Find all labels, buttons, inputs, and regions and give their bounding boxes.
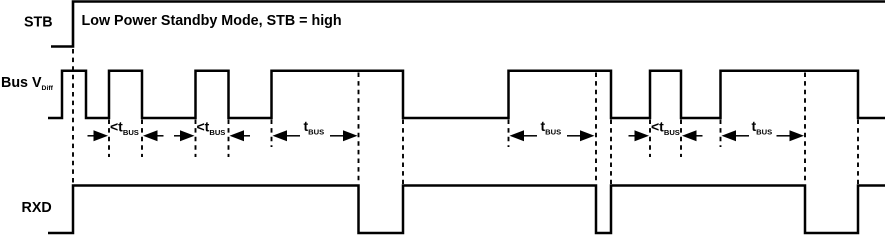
dashed line pulse3 fall x=228.5 <box>228 120 230 158</box>
dashed line bus fall / RXD rise x=858 <box>857 120 859 185</box>
dashed line pulse6 fall x=681 <box>680 120 682 158</box>
annotation f arrows (tBUS long pulse 3) <box>722 130 805 141</box>
dashed line pulse6 rise x=650 <box>649 120 651 158</box>
dashed line long pulse3 rise x=720.5 <box>720 120 722 148</box>
annotation c arrows (tBUS long pulse 1) <box>273 130 358 141</box>
wire Bus VDiff waveform <box>48 71 885 118</box>
svg-text:STB: STB <box>24 15 53 31</box>
dashed line long pulse2 rise x=508.5 <box>508 120 510 148</box>
dashed line pulse3 rise x=195.5 <box>195 120 197 158</box>
dashed line bus fall / RXD rise x=611 <box>610 120 612 185</box>
dashed line RXD fall x=805 <box>804 73 806 185</box>
annotation d arrows (tBUS long pulse 2) <box>510 130 595 141</box>
annotation a arrows (pulse2 &lt;tBUS) <box>88 130 164 141</box>
dashed line pulse2 rise x=109 <box>108 120 110 158</box>
wire RXD waveform <box>48 186 885 234</box>
annotation e arrows (pulse6 &lt;tBUS) <box>629 130 703 141</box>
dashed line bus fall / RXD rise x=403 <box>402 120 404 185</box>
svg-text:RXD: RXD <box>22 200 52 216</box>
dashed line long pulse rise x=271.5 <box>271 120 273 148</box>
dashed line at STB edge x=73 <box>72 49 74 184</box>
wire STB waveform <box>51 2 885 47</box>
annotation b arrows (pulse3 &lt;tBUS) <box>174 130 250 141</box>
dashed line RXD fall x=358.5 <box>358 73 360 185</box>
dashed line pulse2 fall x=142 <box>141 120 143 158</box>
dashed line RXD fall x=596 <box>595 73 597 185</box>
svg-text:Low Power Standby Mode, STB =: Low Power Standby Mode, STB = high <box>82 13 342 29</box>
